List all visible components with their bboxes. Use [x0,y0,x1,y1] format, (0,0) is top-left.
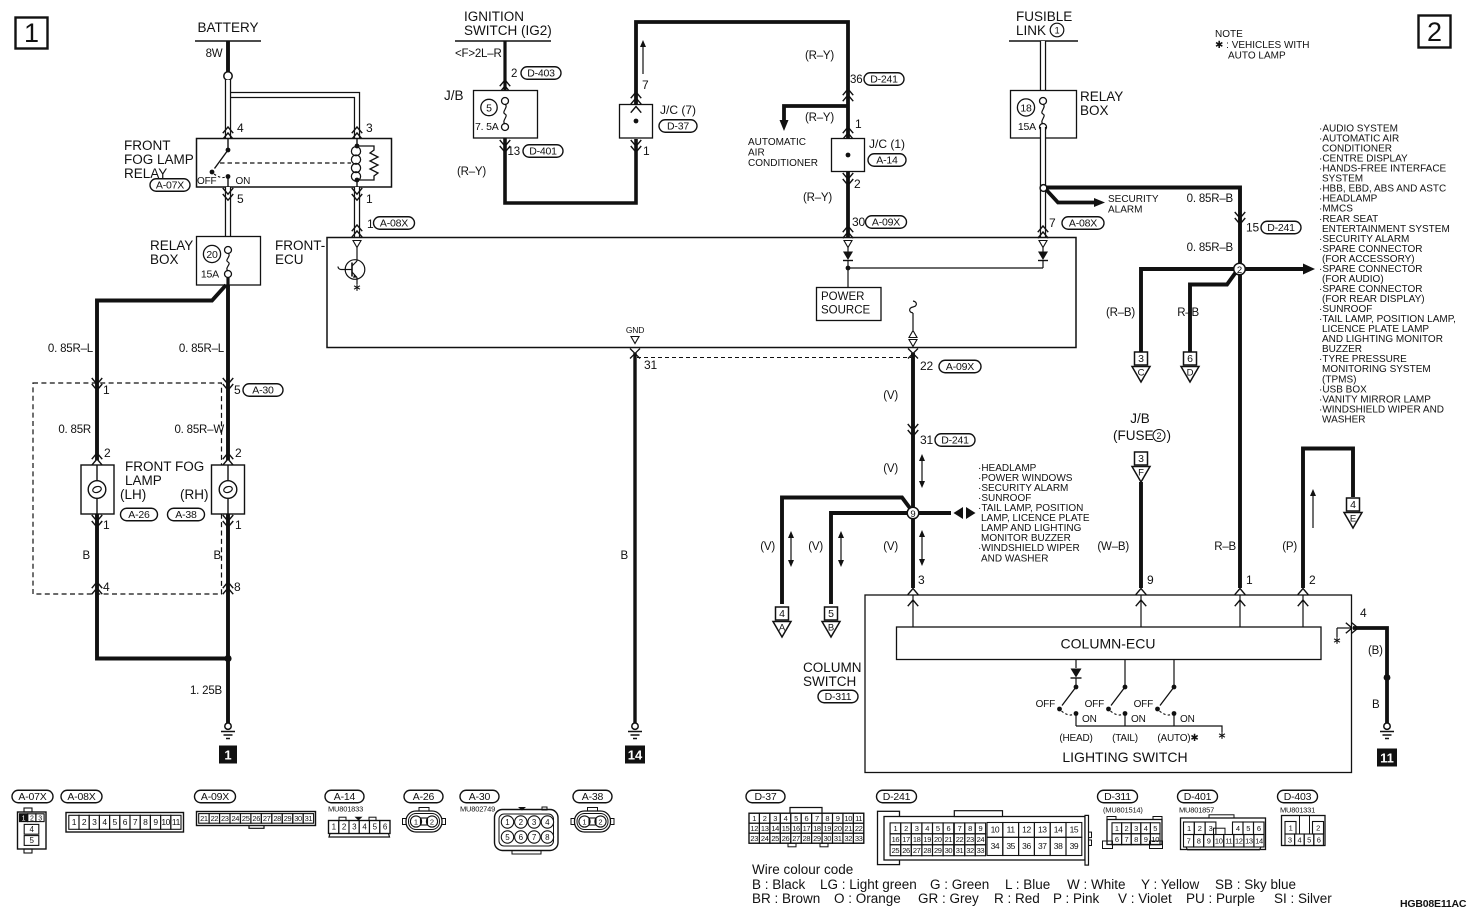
pin 2 D-403 chevron [500,80,511,92]
svg-text:7: 7 [532,833,537,842]
svg-text:(V): (V) [760,541,775,553]
svg-text:ON: ON [1131,714,1146,725]
svg-text:0. 85R–B: 0. 85R–B [1187,193,1234,205]
connector pinout D-403 [1278,790,1318,803]
svg-text:A-09X: A-09X [201,791,229,803]
svg-text:R–B: R–B [1177,307,1199,319]
wire 0.85R-L down right branch [226,285,230,380]
svg-text:8: 8 [545,833,550,842]
svg-text:28: 28 [803,834,811,843]
relay FRONT FOG LAMP RELAY A-07X box [197,139,392,188]
svg-text:2: 2 [511,68,517,80]
svg-text:B: B [621,550,629,562]
svg-text:1. 25B: 1. 25B [190,685,223,697]
ground asterisk below transistor [354,284,360,291]
svg-text:1: 1 [103,518,110,532]
svg-text:9: 9 [979,824,983,833]
ground reference box 14 [625,746,645,764]
wire branch to relay pin 3 [227,95,357,140]
svg-text:J/C (1): J/C (1) [869,137,905,151]
pin 4 of front fog lamp relay [223,127,234,139]
svg-text:8W: 8W [206,48,223,60]
pin 1 below LH lamp [92,515,103,527]
pin 1 into dashed boundary LH [92,378,103,390]
svg-text:15: 15 [782,824,790,833]
svg-text:3: 3 [773,814,777,823]
svg-text:): ) [1167,428,1172,443]
wire P from triangle E to column-ecu pin 2 [1303,449,1353,589]
svg-text:29: 29 [813,834,821,843]
svg-text:4: 4 [779,608,785,620]
svg-text:(R–Y): (R–Y) [457,166,486,178]
svg-text:HGB08E11AC: HGB08E11AC [1400,898,1467,910]
svg-text:A-38: A-38 [175,509,197,521]
svg-text:5: 5 [486,103,492,115]
svg-text:39: 39 [1070,841,1079,851]
svg-text:28: 28 [273,814,281,823]
svg-text:15: 15 [1246,221,1259,235]
svg-text:1: 1 [235,518,242,532]
svg-text:16: 16 [892,835,900,844]
svg-text:11: 11 [172,817,181,827]
svg-text:1: 1 [505,818,510,827]
column switch outer box D-311 [865,595,1352,773]
svg-text:19: 19 [923,835,931,844]
wire V from front-ecu pin 22 down to node 9 [911,353,915,588]
svg-text:IGNITION: IGNITION [464,9,524,24]
svg-text:WASHER: WASHER [1322,414,1366,425]
relay coil suppression resistor [357,146,378,180]
svg-text:2: 2 [1156,431,1161,441]
svg-text:A-08X: A-08X [1069,218,1097,230]
svg-text:A-38: A-38 [582,791,604,803]
connector pinout A-26 [404,790,443,803]
svg-text:2: 2 [1237,265,1242,276]
svg-text:A-08X: A-08X [380,218,408,230]
svg-text:0. 85R–L: 0. 85R–L [179,343,225,355]
svg-text:BOX: BOX [150,252,179,267]
svg-text:(R–B): (R–B) [1106,307,1135,319]
svg-text:5: 5 [234,383,241,397]
svg-text:D-37: D-37 [755,791,777,803]
connector pinout D-37 [746,790,785,803]
svg-text:28: 28 [923,846,931,855]
junction of LH and RH ground wires [224,655,231,662]
svg-text:5: 5 [237,192,244,206]
svg-text:1: 1 [224,748,231,763]
connector label D-311 [818,690,858,703]
pin 22 below front-ecu [908,349,918,359]
svg-text:D-241: D-241 [883,791,911,803]
svg-text:31: 31 [956,846,964,855]
pin 3 into column-ecu [908,589,919,595]
svg-text:20: 20 [206,249,218,261]
svg-text:ECU: ECU [275,252,304,267]
direction arrows on branch wires [790,537,792,561]
svg-text:1: 1 [894,824,898,833]
svg-text:35: 35 [1006,841,1015,851]
svg-text:7: 7 [1049,216,1056,230]
svg-text:0. 85R–W: 0. 85R–W [174,424,224,436]
svg-text:COLUMN-ECU: COLUMN-ECU [1061,636,1156,652]
svg-text:3: 3 [366,121,373,135]
svg-text:22: 22 [920,359,933,373]
pin 1 into column-ecu [1235,589,1246,595]
svg-text:30: 30 [945,846,953,855]
svg-text:4: 4 [1144,824,1148,833]
svg-text:A-08X: A-08X [67,791,95,803]
svg-text:5: 5 [828,608,834,620]
svg-text:13: 13 [1038,825,1047,835]
svg-text:12: 12 [750,824,758,833]
svg-text:2: 2 [30,815,34,822]
ECU FRONT-ECU box [327,238,1076,348]
svg-text:J/B: J/B [444,88,464,103]
svg-text:4: 4 [103,580,110,594]
svg-text:AUTOMATIC: AUTOMATIC [748,137,806,148]
svg-text:10: 10 [161,817,170,827]
junction dot on ground wire [1384,674,1391,681]
pin 2 of front fog lamp RH [223,453,234,465]
svg-text:<F>2L–R: <F>2L–R [455,48,502,60]
svg-text:1: 1 [1246,573,1253,587]
svg-text:31: 31 [920,433,933,447]
svg-text:2: 2 [904,824,908,833]
lighting switch HEAD contact [1074,685,1079,690]
svg-text:29: 29 [934,846,942,855]
svg-text:FRONT-: FRONT- [275,238,325,253]
node 2 circled junction [1234,263,1246,275]
connector pinout D-241 [877,790,917,803]
ECU COLUMN-ECU box [897,627,1322,660]
svg-text:27: 27 [792,834,800,843]
svg-text:7: 7 [1187,837,1191,846]
svg-text:AUTO LAMP: AUTO LAMP [1228,51,1286,62]
front-ecu diode D1 at pin 30 [844,241,852,248]
connector 4 E box and triangle [1347,498,1360,511]
svg-text:23: 23 [966,835,974,844]
svg-text:ON: ON [236,176,251,187]
fuse 18 element 15A [1040,98,1047,105]
svg-text:GND: GND [626,325,644,335]
svg-text:1: 1 [103,383,110,397]
wire W-B from triangle F to column-ecu pin 9 [1139,482,1143,588]
svg-text:D-241: D-241 [1267,222,1295,234]
front-ecu input triangle pin 1 [353,241,361,248]
pin 5 of front fog lamp relay [223,188,234,200]
svg-text:3: 3 [532,818,537,827]
svg-text:Wire colour code: Wire colour code [752,862,853,877]
svg-text:14: 14 [628,748,643,763]
pin 5 A-30 into dashed boundary RH [223,378,234,390]
svg-text:6: 6 [123,817,128,827]
connector label D-37 at J/C7 [659,120,697,133]
svg-text:C: C [1138,368,1145,379]
svg-text:33: 33 [977,846,985,855]
svg-text:10: 10 [1215,837,1223,846]
pin 30 A-09X into FRONT-ECU [843,226,854,238]
svg-text:8: 8 [234,580,241,594]
ground G2 front-ecu [632,723,638,729]
svg-text:(R–Y): (R–Y) [805,50,834,62]
svg-text:6: 6 [519,833,524,842]
svg-text:6: 6 [805,814,809,823]
wire fuse 18 to front-ecu pin 7 [1040,127,1046,238]
wires from outer box to column-ecu [912,595,914,627]
pin 31 below front-ecu [630,349,640,359]
svg-text:OFF: OFF [1036,699,1055,710]
lighting switch common bus to ground [1076,726,1222,732]
svg-text:3: 3 [1288,836,1292,845]
wire from J/C7 up and right to D-241 [636,22,848,238]
wire from node 2 down to column-ecu pin 1 [1238,269,1242,588]
svg-text:5: 5 [1307,836,1311,845]
svg-text:A-26: A-26 [413,791,435,803]
ground reference box 11 [1377,749,1397,767]
svg-text:6: 6 [947,824,951,833]
svg-text:32: 32 [844,834,852,843]
svg-text:12: 12 [1022,825,1031,835]
pin 31 D-241 chevrons mid-wire [908,424,919,436]
svg-text:18: 18 [1020,103,1032,115]
svg-text:A-07X: A-07X [18,791,46,803]
front fog lamp RH bulb [227,465,229,482]
svg-text:9: 9 [1207,837,1211,846]
svg-text:SWITCH (IG2): SWITCH (IG2) [464,23,552,38]
fusible link circled 1 [1050,23,1064,37]
pin 1 below J/C7 [631,140,642,152]
svg-text:0. 85R–L: 0. 85R–L [48,343,94,355]
svg-text:20: 20 [934,835,942,844]
pin 1 A-08X into FRONT-ECU [352,225,363,237]
relay switch contact [227,139,229,150]
svg-text:(FUSE: (FUSE [1113,428,1154,443]
svg-text:2: 2 [430,817,434,826]
pin 2 below J/C1 [843,173,854,185]
fuse 20 element 15A [225,247,232,254]
svg-text:D: D [1187,368,1194,379]
svg-text:1: 1 [643,144,650,158]
svg-text:24: 24 [761,834,769,843]
svg-text:MU802749: MU802749 [460,805,495,814]
dashed connector boundary A-30 fog lamp assembly [33,383,222,594]
svg-text:10: 10 [1151,835,1159,844]
relay mechanical linkage dashed line [220,162,351,164]
svg-text:B: B [828,623,834,634]
svg-text:OFF: OFF [1085,699,1104,710]
svg-text:6: 6 [1115,835,1119,844]
svg-text:(V): (V) [883,390,898,402]
connector pinout A-30 [460,790,499,803]
pin 15 D-241 chevrons [1235,212,1246,224]
connector label D-241 right [1261,221,1301,234]
svg-text:7: 7 [815,814,819,823]
svg-text:15: 15 [1070,825,1079,835]
svg-text:30: 30 [852,215,865,229]
svg-text:1: 1 [1187,824,1191,833]
pin 7 above J/C7 [631,92,642,104]
svg-text:A-30: A-30 [469,791,491,803]
svg-text:FRONT: FRONT [124,138,171,153]
junction block J/B box with fuse 5 [474,91,538,139]
wire B below LH lamp [97,514,226,659]
power source box [817,288,882,321]
page number box 2 [1419,16,1451,48]
svg-text:A-14: A-14 [876,155,898,167]
connector label A-38 [168,508,205,521]
svg-text:FOG LAMP: FOG LAMP [124,152,194,167]
ground G3 column switch [1384,723,1390,729]
svg-text:1: 1 [366,192,373,206]
svg-text:4: 4 [1236,824,1240,833]
svg-text:4: 4 [237,121,244,135]
svg-text:D-311: D-311 [1104,791,1131,803]
svg-text:SWITCH: SWITCH [803,674,856,689]
svg-text:19: 19 [824,824,832,833]
svg-text:E: E [1350,514,1356,525]
wire battery to relay pin 4 [225,80,231,140]
svg-text:(AUTO)✱: (AUTO)✱ [1157,733,1198,744]
svg-text:OFF: OFF [197,176,216,187]
svg-text:MU801331: MU801331 [1280,806,1315,815]
svg-text:22: 22 [956,835,964,844]
connector label D-241 at node 9 wire [935,434,975,447]
connector pinout D-311 [1098,790,1138,803]
svg-text:3: 3 [1138,353,1144,365]
svg-text:25: 25 [892,846,900,855]
svg-text:4: 4 [1350,499,1356,511]
svg-text:21: 21 [945,835,953,844]
svg-text:24: 24 [232,814,240,823]
svg-text:B: B [1372,699,1380,711]
page number box 1 [16,18,48,49]
wire R-Y from fuse to J/C7 [505,138,636,203]
svg-text:D-241: D-241 [870,74,898,86]
svg-text:17: 17 [803,824,811,833]
svg-text:A-09X: A-09X [946,361,974,373]
svg-text:J/C (7): J/C (7) [660,103,696,117]
connector pinout A-14 [325,790,364,803]
svg-text:7: 7 [133,817,138,827]
svg-text:10: 10 [844,814,852,823]
svg-text:2: 2 [235,446,242,460]
svg-text:27: 27 [263,814,271,823]
svg-text:2: 2 [854,177,861,191]
svg-text:POWER: POWER [821,291,864,303]
connector pinout A-08X [61,790,102,803]
svg-text:4: 4 [102,817,107,827]
svg-text:3: 3 [915,824,919,833]
pin 2 into column-ecu [1298,589,1309,595]
connector label A-26 [121,508,158,521]
svg-text:✱ : VEHICLES WITH: ✱ : VEHICLES WITH [1215,40,1310,51]
svg-text:14: 14 [1054,825,1063,835]
node 2 branch wire to triangle D [1190,272,1236,352]
connector triangle 3 C [1135,352,1148,365]
junction circle on fusible link wire [1040,185,1047,192]
svg-text:11: 11 [1380,751,1394,766]
direction arrow both ways upper [921,460,923,482]
svg-text:33: 33 [855,834,863,843]
svg-text:F: F [1138,468,1144,479]
svg-text:B : BlackLG : Light greenG : G: B : BlackLG : Light greenG : GreenL : Bl… [752,877,1296,892]
svg-text:37: 37 [1038,841,1047,851]
svg-text:13: 13 [508,146,520,158]
svg-text:MU801833: MU801833 [328,805,363,814]
svg-text:9: 9 [153,817,158,827]
svg-text:1: 1 [1055,26,1060,36]
svg-text:4: 4 [545,818,550,827]
svg-text:5: 5 [505,833,510,842]
junction connector J/C (1) A-14 [832,139,865,172]
wire ignition to J/B fuse 5 [503,41,506,92]
svg-text:1: 1 [582,817,586,826]
svg-text:LINK: LINK [1016,23,1046,38]
svg-text:1: 1 [1115,824,1119,833]
relay coil [356,139,358,147]
svg-text:7: 7 [642,78,649,92]
svg-text:16: 16 [792,824,800,833]
svg-text:A: A [779,623,786,634]
svg-text:2: 2 [104,446,111,460]
svg-text:1: 1 [855,117,862,131]
connector label D-241 top [864,73,904,86]
pin 3 of front fog lamp relay [352,127,363,139]
svg-text:A-30: A-30 [252,385,274,397]
svg-text:A-26: A-26 [128,509,150,521]
connector pinout A-09X [195,790,236,803]
connector pinout A-07X [12,790,53,803]
svg-text:3: 3 [92,817,97,827]
svg-text:2: 2 [82,817,87,827]
front fog lamp RH box [212,465,245,514]
svg-text:1: 1 [752,814,756,823]
fuse 5 circled number [481,99,497,115]
pin 9 into column-ecu [1136,589,1147,595]
connector label A-09X at front-ecu pin 30 [866,216,907,229]
svg-text:31: 31 [834,834,842,843]
svg-text:R–B: R–B [1214,541,1236,553]
svg-text:COLUMN: COLUMN [803,660,862,675]
svg-text:5: 5 [1153,824,1157,833]
svg-text:FUSIBLE: FUSIBLE [1016,9,1072,24]
svg-text:3: 3 [1209,824,1213,833]
pin 1 above J/C1 [843,127,854,139]
svg-text:NOTE: NOTE [1215,29,1243,40]
pin 8 crossing dashed boundary RH [223,582,234,594]
svg-text:8: 8 [968,824,972,833]
svg-text:D-311: D-311 [825,691,852,703]
connector triangle 4 A [776,607,789,620]
svg-text:FRONT FOG: FRONT FOG [125,459,204,474]
fuse 5 element 7.5A [502,98,509,105]
svg-text:(R–Y): (R–Y) [805,112,834,124]
direction arrow up beside J/C7 wire [642,46,644,74]
svg-text:34: 34 [991,841,1000,851]
wire relay pin 5 to fuse 20 [225,187,231,247]
connector triangle 3 F [1135,452,1148,465]
svg-text:26: 26 [782,834,790,843]
svg-text:8: 8 [1197,837,1201,846]
connector label A-08X at front-ecu pin 1 [374,217,415,230]
svg-text:21: 21 [200,814,208,823]
svg-text:9: 9 [1147,573,1154,587]
svg-text:23: 23 [750,834,758,843]
svg-text:2: 2 [598,817,602,826]
pin 13 D-401 chevron [500,140,511,152]
front fog lamp LH bulb [96,465,98,482]
svg-text:2: 2 [519,818,524,827]
